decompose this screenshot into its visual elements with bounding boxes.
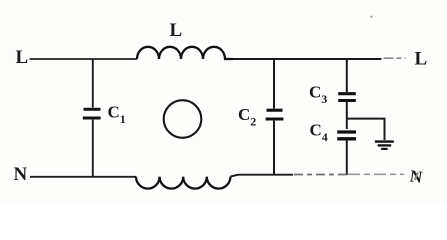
svg-text:C1: C1 [108, 103, 126, 127]
svg-text:C4: C4 [310, 121, 328, 145]
wire top right: coil to C2 node to C3 node to L [233, 58, 382, 60]
svg-text:L: L [170, 20, 183, 41]
svg-text:C3: C3 [309, 83, 327, 107]
svg-text:L: L [415, 49, 428, 70]
speck [370, 16, 372, 18]
wire bottom right solid [230, 175, 293, 177]
capacitor C4 [337, 132, 356, 175]
wire C3/C4 junction to ground [347, 119, 385, 140]
svg-text:C2: C2 [238, 105, 256, 129]
capacitor C1 [83, 59, 101, 177]
common-mode choke core (circle) [164, 100, 202, 138]
capacitor C3 [338, 59, 356, 129]
wire L to C1 node (top left) [30, 58, 138, 60]
capacitor C2 [266, 59, 284, 175]
inductor L (top, line winding) [137, 47, 233, 59]
svg-text:L: L [16, 47, 29, 68]
wire N to bottom coil [30, 176, 136, 178]
wire faded end toward right L [384, 57, 406, 59]
inductor (bottom, line winding) [136, 177, 230, 189]
wire bottom right faded dashed [294, 174, 348, 176]
ground [375, 142, 394, 149]
svg-text:N: N [14, 164, 28, 185]
